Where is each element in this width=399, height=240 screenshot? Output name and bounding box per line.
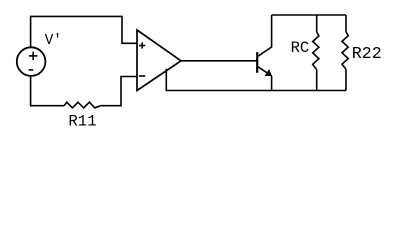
top rail wire (272, 14, 346, 16)
wire RC to bottom rail (316, 70, 318, 91)
wire top rail to R22 (345, 15, 347, 32)
resistor R11 (64, 102, 100, 108)
transistor Q1 (257, 15, 272, 91)
svg-text:R11: R11 (68, 113, 96, 131)
wire from source bottom to R11 (31, 77, 64, 106)
feedback wire from op-amp edge down (165, 69, 167, 91)
wire op-amp output to transistor base (181, 60, 257, 62)
wire top rail to RC (316, 15, 318, 32)
svg-text:V': V' (45, 33, 62, 49)
resistor R22 (342, 32, 348, 69)
op-amp U1 (137, 30, 181, 91)
bottom rail wire (166, 90, 347, 92)
resistor RC (313, 32, 319, 70)
wire from source top to op-amp non-inverting input (31, 16, 137, 47)
svg-text:R22: R22 (352, 44, 382, 63)
voltage source V' (17, 47, 46, 76)
wire from R11 to op-amp inverting input (100, 77, 137, 106)
svg-text:RC: RC (291, 39, 310, 57)
wire R22 to bottom rail (345, 69, 347, 90)
